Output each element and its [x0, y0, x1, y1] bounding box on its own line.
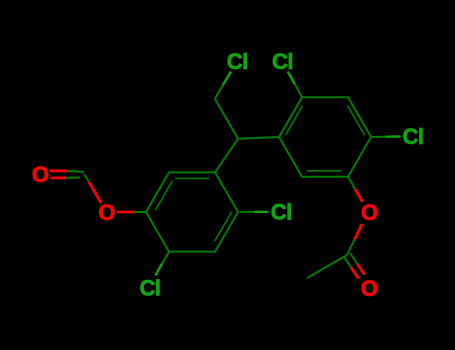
svg-text:Cl: Cl	[272, 49, 293, 74]
bond ring1-R to Cl4 (bright half)	[254, 211, 269, 213]
svg-text:Cl: Cl	[227, 49, 248, 74]
bridge bond J to ring2-L	[238, 137, 279, 139]
svg-text:Cl: Cl	[140, 276, 161, 301]
bond ring2-R to Cl3 (bright half)	[386, 135, 401, 138]
atom label O5 (carbonyl O, bottom right)	[361, 276, 378, 301]
formate carbonyl O1 double bond line a (red part)	[50, 169, 67, 172]
acetyl C2 to O5 double bond line a (dark part)	[344, 257, 351, 268]
atom label O1 (carbonyl O, far left)	[32, 162, 49, 187]
bond O4 to C2 (dark half)	[347, 240, 355, 256]
acetyl C2 to O5 double bond line b (dark part)	[350, 253, 357, 264]
acetyl C2 to O5 double bond line b (red part)	[357, 264, 364, 275]
benzene ring 2 inner aromatic lines	[286, 106, 365, 171]
bond CH2 to Cl1 (bright half)	[223, 72, 231, 85]
atom label Cl5 (bottom left)	[140, 276, 161, 301]
bond C2 to methyl	[307, 255, 347, 278]
svg-text:O: O	[361, 276, 378, 301]
formate carbonyl O1 double bond line b (dark part)	[65, 177, 80, 179]
benzene ring 2 (right) outline	[279, 97, 371, 177]
atom label O2 (ester O, left)	[98, 200, 115, 225]
bond O2 to ring1-L (dark half)	[134, 211, 146, 213]
bond ring2-BR to O4 (dark half)	[348, 177, 355, 190]
acetyl C2 to O5 double bond line a (red part)	[351, 268, 358, 279]
benzene ring 1 (left) outline	[146, 172, 238, 251]
svg-text:Cl: Cl	[403, 124, 424, 149]
bond ring1-BL to Cl5 (bright half)	[155, 264, 162, 276]
atom label Cl4 (middle)	[271, 200, 292, 225]
bond ring1-R to Cl4 (dark half)	[240, 211, 254, 213]
atom label O4 (ester O, right)	[361, 200, 378, 225]
atom label Cl2 (top right of pair)	[272, 49, 293, 74]
bond ring1-BL to Cl5 (dark half)	[162, 252, 169, 264]
bond ring2-TL to Cl2 (dark half)	[295, 84, 302, 97]
svg-text:O: O	[361, 200, 378, 225]
bond O2 to ring1-L (red half)	[117, 211, 134, 214]
bond C1 to O2 (dark half)	[84, 174, 89, 182]
svg-text:O: O	[32, 162, 49, 187]
bond CH2 to Cl1 (dark half)	[215, 85, 223, 99]
bond C1 to O2 (red half)	[89, 182, 101, 203]
atom label Cl1 (top left of pair)	[227, 49, 248, 74]
bond J to CH2Cl carbon	[215, 99, 238, 139]
svg-text:Cl: Cl	[271, 200, 292, 225]
bridge bond ring1-TR to J	[215, 139, 238, 173]
formate carbonyl O1 double bond line a (dark part)	[67, 171, 84, 172]
bond ring2-TL to Cl2 (bright half)	[288, 72, 295, 85]
atom label Cl3 (far right)	[403, 124, 424, 149]
bond O4 to C2 (red half)	[355, 224, 363, 240]
formate carbonyl O1 double bond line b (red part)	[51, 176, 66, 179]
benzene ring 1 inner aromatic lines	[156, 178, 232, 241]
svg-text:O: O	[98, 200, 115, 225]
bond ring2-R to Cl3 (dark half)	[371, 136, 386, 138]
bond ring2-BR to O4 (red half)	[355, 189, 362, 202]
